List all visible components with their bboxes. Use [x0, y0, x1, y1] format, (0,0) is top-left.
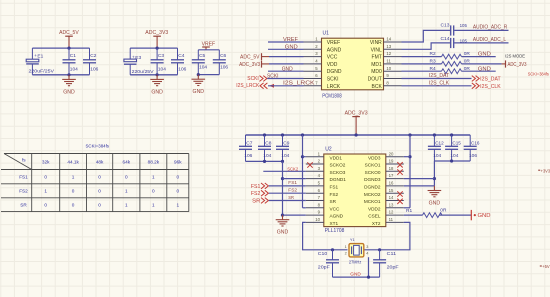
svg-text:220uF/25V: 220uF/25V	[29, 69, 55, 75]
port I2S_DAT	[472, 76, 501, 83]
wire R1 to GND bar	[439, 214, 471, 216]
capacitor C7 106	[239, 135, 253, 161]
svg-text:0: 0	[98, 175, 101, 180]
net label I2S_LRCK	[283, 80, 315, 86]
wire R3 to ADC_3V3 bar	[462, 63, 502, 65]
capacitor C4 106	[171, 48, 187, 75]
op-amp U1 PCM1808 body	[322, 30, 384, 99]
capacitor C2 106	[83, 48, 99, 75]
wire right caps bottom rail	[434, 160, 470, 162]
capacitor C9 104	[276, 135, 290, 161]
wire AUDIO_ADC_R	[454, 29, 508, 31]
svg-text:FS2: FS2	[19, 189, 28, 194]
U2 pin 16 DGND2	[364, 181, 404, 190]
svg-text:104: 104	[450, 153, 458, 159]
svg-text:DGND2: DGND2	[364, 185, 381, 190]
U1 pin 14 VINR	[370, 37, 402, 46]
table row SR	[20, 202, 179, 207]
junction group2 gnd	[156, 73, 159, 76]
crystal Y1 27MHz	[345, 237, 369, 264]
power port VREF	[202, 41, 216, 49]
junction node ADC_5V	[67, 47, 70, 50]
net label I2S_CLK	[429, 81, 450, 87]
net label GND pin5	[282, 66, 293, 72]
svg-text:GND: GND	[277, 230, 289, 236]
table row FS2	[19, 189, 179, 194]
U1 pin 6 SCKI	[304, 73, 339, 82]
svg-text:0: 0	[152, 189, 155, 194]
svg-text:C5: C5	[199, 53, 205, 59]
power port ADC_3V3 at U2	[345, 111, 368, 135]
U2 pin 20 VDD3	[368, 151, 404, 160]
svg-text:ADC_3V3: ADC_3V3	[508, 62, 527, 68]
power port ADC_3V3 group2	[145, 30, 168, 48]
svg-text:17: 17	[389, 173, 394, 178]
wire U2 pin8 VCC	[303, 207, 306, 209]
wire ADC_5V top rail	[32, 47, 89, 49]
U1 pin 12 FMT	[372, 51, 402, 60]
svg-text:15: 15	[389, 188, 394, 193]
svg-text:GND: GND	[350, 271, 361, 277]
svg-text:106: 106	[178, 66, 186, 72]
wire U2 pin10 XT1 down	[303, 222, 348, 249]
wire U2 pin16 DGND2	[404, 185, 435, 187]
wire ADC_3V3 to U1 pin4	[269, 63, 304, 65]
junction gnd column pin4	[281, 177, 284, 180]
svg-text:C12: C12	[435, 140, 444, 146]
junction group1 gnd	[67, 73, 70, 76]
svg-text:2: 2	[345, 252, 347, 256]
svg-text:I2S_DAT: I2S_DAT	[429, 73, 449, 79]
wire FS2 to U2 pin6	[269, 192, 306, 194]
net label SR	[288, 195, 294, 201]
power port ADC_3V3 at U1 pin4	[239, 61, 269, 68]
svg-text:+5V: +5V	[542, 264, 550, 269]
svg-text:C13: C13	[441, 22, 450, 28]
wire crystal bottom gnd rail	[333, 276, 380, 278]
ground symbol U2 right	[428, 186, 442, 207]
svg-text:20pF: 20pF	[387, 264, 399, 270]
svg-text:VREF: VREF	[202, 41, 216, 47]
svg-text:U1: U1	[323, 30, 330, 36]
svg-text:MD1: MD1	[371, 62, 382, 68]
svg-text:FS1: FS1	[19, 175, 28, 180]
capacitor C10 20pF	[318, 250, 339, 277]
svg-text:SR: SR	[20, 202, 27, 207]
svg-text:XT2: XT2	[372, 221, 381, 226]
svg-text:0: 0	[125, 175, 128, 180]
capacitor C5 104	[192, 50, 208, 75]
svg-text:FS2: FS2	[330, 192, 339, 197]
table row FS1	[19, 175, 179, 180]
net label I2S_DAT	[429, 73, 449, 79]
svg-text:AGND: AGND	[330, 214, 344, 219]
wire I2S_CLK from U1 pin8	[402, 85, 472, 87]
wire I2S_DAT from U1 pin9	[402, 78, 472, 80]
svg-text:44.1k: 44.1k	[67, 159, 79, 164]
wire group2 top rail	[130, 47, 177, 49]
ground symbol group2	[150, 75, 164, 96]
svg-text:C4: C4	[178, 53, 184, 59]
U2 pin 17 DGND3	[364, 173, 404, 182]
svg-text:DGND: DGND	[327, 69, 342, 75]
svg-text:3: 3	[366, 245, 368, 249]
resistor R3 0R	[430, 59, 471, 67]
svg-text:DGND1: DGND1	[330, 177, 347, 182]
svg-text:104: 104	[158, 66, 166, 72]
junction gnd column pin9	[281, 214, 284, 217]
svg-text:0: 0	[176, 189, 179, 194]
capacitor C14 105	[441, 36, 468, 48]
svg-text:I2S MODE: I2S MODE	[505, 53, 525, 58]
svg-text:VREF: VREF	[283, 37, 298, 43]
U1 pin 3 VCC	[304, 51, 338, 60]
annotation SCKI=384fs right	[528, 71, 549, 76]
U1 pin 13 VINL	[371, 44, 402, 53]
wire U2 pin9 AGND	[283, 214, 306, 216]
svg-text:ADC_5V: ADC_5V	[240, 55, 260, 61]
svg-text:SR: SR	[288, 195, 294, 201]
wire SR to U2 pin7	[269, 200, 306, 202]
wire crystal pin4 to gnd rail	[368, 257, 370, 277]
U2 pin 15 MCKO2	[364, 188, 404, 197]
svg-text:+3V3: +3V3	[541, 168, 550, 173]
svg-text:19: 19	[389, 159, 394, 164]
svg-text:GND: GND	[429, 201, 441, 207]
svg-text:I2S_CLK: I2S_CLK	[480, 84, 501, 90]
U1 pin 4 VDD	[304, 59, 338, 68]
ground symbol group3	[192, 75, 206, 96]
wire group3 top rail	[198, 49, 219, 51]
svg-text:E3: E3	[135, 55, 141, 61]
svg-text:C10: C10	[318, 251, 328, 257]
svg-text:AUDIO_ADC_R: AUDIO_ADC_R	[473, 24, 508, 30]
svg-text:SCKI=384fs: SCKI=384fs	[86, 143, 110, 148]
annotation I2S MODE	[505, 53, 525, 58]
svg-text:106: 106	[244, 153, 252, 159]
wire I2S_LRCK to U1 pin7	[268, 85, 304, 87]
wire pin20 column x410	[409, 135, 411, 208]
svg-text:GND: GND	[478, 66, 491, 72]
wire U2 pin1 VDD1	[303, 156, 306, 158]
capacitor C16 106	[464, 135, 480, 161]
op-amp U2 PLL1708 body	[324, 147, 386, 235]
svg-text:FS1: FS1	[330, 185, 339, 190]
svg-text:C1: C1	[70, 53, 76, 59]
U1 pin 1 VREF	[304, 37, 341, 46]
U2 pin 19 SCKO1	[365, 159, 404, 168]
port I2S_CLK	[472, 83, 502, 90]
svg-text:1: 1	[44, 189, 47, 194]
wire group3 bottom rail	[198, 74, 219, 76]
svg-text:14: 14	[389, 195, 394, 200]
svg-text:4: 4	[366, 252, 368, 256]
svg-text:1: 1	[125, 202, 128, 207]
svg-text:R3: R3	[430, 59, 436, 65]
svg-text:FS2: FS2	[251, 191, 261, 197]
svg-text:ADC_3V3: ADC_3V3	[345, 111, 368, 117]
U1 pin 11 MD1	[371, 59, 401, 68]
svg-text:PLL1708: PLL1708	[325, 228, 345, 234]
svg-text:VDD: VDD	[327, 62, 338, 68]
svg-text:1: 1	[152, 175, 155, 180]
svg-text:DOUT: DOUT	[368, 77, 382, 83]
svg-text:1: 1	[72, 175, 75, 180]
junction crystal gnd	[367, 276, 370, 279]
svg-text:C2: C2	[90, 53, 96, 59]
wire power column x302	[302, 135, 304, 208]
capacitor C3 104	[151, 48, 167, 75]
svg-text:SCKO2: SCKO2	[330, 163, 346, 168]
capacitor C12 104	[428, 135, 444, 161]
ground symbol U2 left	[276, 215, 290, 236]
net label GND crystal	[350, 271, 361, 277]
svg-text:GND: GND	[478, 213, 491, 219]
net label AUDIO_ADC_R	[473, 24, 508, 30]
no-connect X on U2 pin19	[397, 162, 402, 167]
svg-text:106: 106	[469, 153, 477, 159]
resistor R1 0R	[406, 207, 447, 217]
svg-text:FS2: FS2	[288, 188, 297, 194]
svg-text:0R: 0R	[440, 207, 447, 213]
svg-text:I2S_LRCK: I2S_LRCK	[283, 80, 315, 86]
svg-text:VCC: VCC	[330, 206, 341, 211]
wire R2 to GND label	[462, 56, 496, 58]
svg-text:16: 16	[389, 181, 394, 186]
svg-text:I2S_DAT: I2S_DAT	[480, 77, 501, 83]
svg-text:MCKO2: MCKO2	[364, 192, 381, 197]
svg-text:R2: R2	[430, 51, 436, 57]
svg-text:C3: C3	[158, 53, 164, 59]
capacitor C15 104	[445, 135, 461, 161]
wire gnd column x282	[282, 161, 284, 215]
port FS1	[251, 183, 269, 190]
svg-text:12: 12	[389, 210, 394, 215]
svg-text:GND: GND	[285, 45, 298, 51]
svg-text:R4: R4	[430, 66, 436, 72]
svg-text:27MHz: 27MHz	[349, 259, 362, 264]
table grid	[1, 154, 189, 212]
svg-text:AGND: AGND	[327, 47, 342, 53]
U2 pin 1 VDD1	[306, 151, 343, 160]
port SR	[252, 198, 268, 205]
resistor R4 0R	[430, 66, 471, 74]
svg-text:R1: R1	[406, 208, 412, 214]
wire U1 pin10 to R4	[402, 70, 442, 72]
no-connect X on U2 pin14	[397, 199, 402, 204]
svg-text:105: 105	[460, 23, 468, 28]
svg-text:0: 0	[98, 202, 101, 207]
svg-text:10: 10	[315, 217, 320, 222]
svg-text:MCKO1: MCKO1	[364, 199, 381, 204]
svg-text:VINL: VINL	[371, 47, 382, 53]
wire U2 pin12 to R1	[404, 214, 423, 216]
svg-text:SCK2: SCK2	[287, 167, 298, 173]
U2 pin 14 MCKO1	[364, 195, 404, 204]
U2 pin 2 SCKO2	[306, 159, 346, 168]
U1 pin 2 AGND	[304, 44, 342, 53]
svg-text:C8: C8	[265, 140, 271, 146]
U2 pin 5 FS1	[306, 181, 339, 190]
U2 pin 13 VDD2	[368, 202, 404, 211]
svg-text:SR: SR	[252, 198, 261, 204]
U2 pin 3 SCKO3	[306, 166, 346, 175]
svg-text:C14: C14	[441, 36, 450, 42]
net label SCK2	[287, 167, 298, 173]
svg-text:88.2k: 88.2k	[148, 159, 160, 164]
svg-text:C15: C15	[452, 140, 461, 146]
svg-text:GND: GND	[282, 66, 293, 72]
capacitor C6 106	[213, 50, 229, 75]
svg-text:13: 13	[389, 202, 394, 207]
wire U2 pin4 DGND1	[283, 178, 306, 180]
svg-text:C6: C6	[220, 53, 226, 59]
svg-text:14: 14	[386, 37, 391, 42]
U1 pin 7 LRCK	[304, 80, 341, 89]
table title SCKI=384fs	[86, 143, 110, 148]
power port ADC_5V at U1 pin3	[240, 53, 269, 60]
wire group1 bottom rail	[32, 74, 89, 76]
svg-text:VDD2: VDD2	[368, 206, 381, 211]
wire U2 pin17 DGND3	[404, 178, 435, 180]
svg-text:11: 11	[389, 217, 394, 222]
svg-text:11: 11	[386, 59, 391, 64]
U1 pin 8 BCK	[372, 80, 402, 89]
wire SCKI to U1 pin6	[267, 78, 303, 80]
wire U1 pin13 to C14	[402, 43, 451, 49]
svg-text:1: 1	[152, 202, 155, 207]
table header fs	[22, 158, 26, 163]
junction x410 pin20	[408, 155, 411, 158]
U2 pin 10 XT1	[306, 217, 339, 226]
svg-text:1: 1	[125, 189, 128, 194]
junction C11 tap	[378, 248, 381, 251]
power port GND at R1	[471, 210, 491, 220]
U1 pin 5 DGND	[304, 66, 342, 75]
U2 pin 7 SR	[306, 195, 337, 204]
svg-text:96k: 96k	[174, 159, 182, 164]
svg-text:FS1: FS1	[251, 184, 261, 190]
svg-text:VCC: VCC	[327, 55, 338, 61]
svg-text:104: 104	[70, 66, 78, 72]
wire net GND to U1 pin2	[268, 48, 304, 50]
svg-text:106: 106	[220, 65, 228, 71]
svg-text:104: 104	[199, 65, 207, 71]
capacitor C1 104	[63, 48, 79, 75]
svg-text:13: 13	[386, 44, 391, 49]
svg-text:SR: SR	[330, 199, 337, 204]
svg-text:PCM1808: PCM1808	[322, 93, 342, 99]
svg-text:0: 0	[98, 189, 101, 194]
U1 pin 10 MD0	[371, 66, 401, 75]
svg-text:SCKO1: SCKO1	[365, 163, 381, 168]
wire AUDIO_ADC_L	[454, 42, 508, 44]
svg-text:48k: 48k	[96, 159, 104, 164]
wire group2 bottom rail	[130, 74, 177, 76]
wire SCK2 to U2 pin3	[263, 170, 306, 172]
wire U1 pin14 to C13	[402, 30, 451, 42]
svg-text:104: 104	[281, 153, 289, 159]
svg-text:VINR: VINR	[370, 40, 382, 46]
wire ADC_5V to U1 pin3	[269, 56, 304, 58]
net label AUDIO_ADC_L	[473, 37, 506, 43]
svg-text:32k: 32k	[42, 159, 50, 164]
svg-text:MD0: MD0	[371, 69, 382, 75]
U2 pin 11 XT2	[372, 217, 404, 226]
wire U1 pin12 to R2	[402, 56, 442, 58]
svg-text:20pF: 20pF	[318, 264, 330, 270]
svg-text:C16: C16	[471, 140, 480, 146]
junction power column pin1	[301, 155, 304, 158]
junction node ADC_3V3 group2	[156, 47, 159, 50]
U2 pin 18 SCKO0	[365, 166, 404, 175]
svg-text:FMT: FMT	[372, 55, 382, 61]
wire net GND to U1 pin5	[268, 70, 304, 72]
wire FS1 to U2 pin5	[269, 185, 306, 187]
svg-text:BCK: BCK	[372, 84, 383, 90]
svg-text:VDD3: VDD3	[368, 155, 381, 160]
power port ADC_3V3 at R3	[502, 60, 527, 68]
wire U2 pin11 XT2 down	[363, 222, 410, 249]
svg-text:I2S_CLK: I2S_CLK	[429, 81, 450, 87]
svg-text:SCKI: SCKI	[247, 76, 259, 82]
net label GND at R4	[478, 66, 491, 72]
port SCKI	[247, 76, 267, 82]
no-connect X on U2 pin15	[397, 191, 402, 196]
svg-text:0: 0	[44, 175, 47, 180]
svg-text:64k: 64k	[123, 159, 131, 164]
wire U2 top power rail	[246, 134, 471, 136]
svg-text:18: 18	[389, 166, 394, 171]
wire U1 pin11 to R3	[402, 63, 442, 65]
svg-text:SCKI=384fs: SCKI=384fs	[528, 71, 549, 76]
capacitor E3 (electrolytic 220u/25V)	[124, 48, 155, 75]
port FS2	[251, 190, 269, 197]
capacitor C11 20pF	[373, 250, 399, 277]
svg-text:VDD1: VDD1	[330, 155, 343, 160]
svg-text:106: 106	[90, 66, 98, 72]
net label VREF	[283, 37, 298, 43]
U1 pin 9 DOUT	[368, 73, 402, 82]
capacitor C13 105	[441, 22, 468, 35]
svg-text:104: 104	[433, 153, 441, 159]
net label SCKI	[267, 73, 279, 79]
svg-text:DGND3: DGND3	[364, 177, 381, 182]
wire left caps bottom rail	[246, 160, 283, 162]
power port ADC_5V	[59, 30, 79, 48]
svg-text:1: 1	[345, 245, 347, 249]
net label FS1	[288, 180, 297, 186]
svg-text:VREF: VREF	[327, 40, 340, 46]
svg-text:E1: E1	[37, 53, 43, 59]
svg-text:AUDIO_ADC_L: AUDIO_ADC_L	[473, 37, 506, 43]
svg-text:SCKO3: SCKO3	[330, 170, 346, 175]
svg-text:10: 10	[386, 66, 391, 71]
port I2S_LRCK	[236, 83, 274, 89]
svg-text:0: 0	[72, 202, 75, 207]
wire net VREF to U1 pin1	[268, 41, 304, 43]
svg-text:Y1: Y1	[350, 237, 355, 242]
U2 pin 12 CSEL	[368, 210, 404, 219]
wire U2 pin13 VDD2	[404, 207, 410, 209]
junction C10 tap	[331, 248, 334, 251]
svg-text:GND: GND	[478, 52, 491, 58]
U2 pin 6 FS2	[306, 188, 339, 197]
svg-text:I2S_LRCK: I2S_LRCK	[236, 83, 260, 89]
net label FS2	[288, 188, 297, 194]
svg-text:0: 0	[72, 189, 75, 194]
U2 pin 9 AGND	[306, 210, 344, 219]
